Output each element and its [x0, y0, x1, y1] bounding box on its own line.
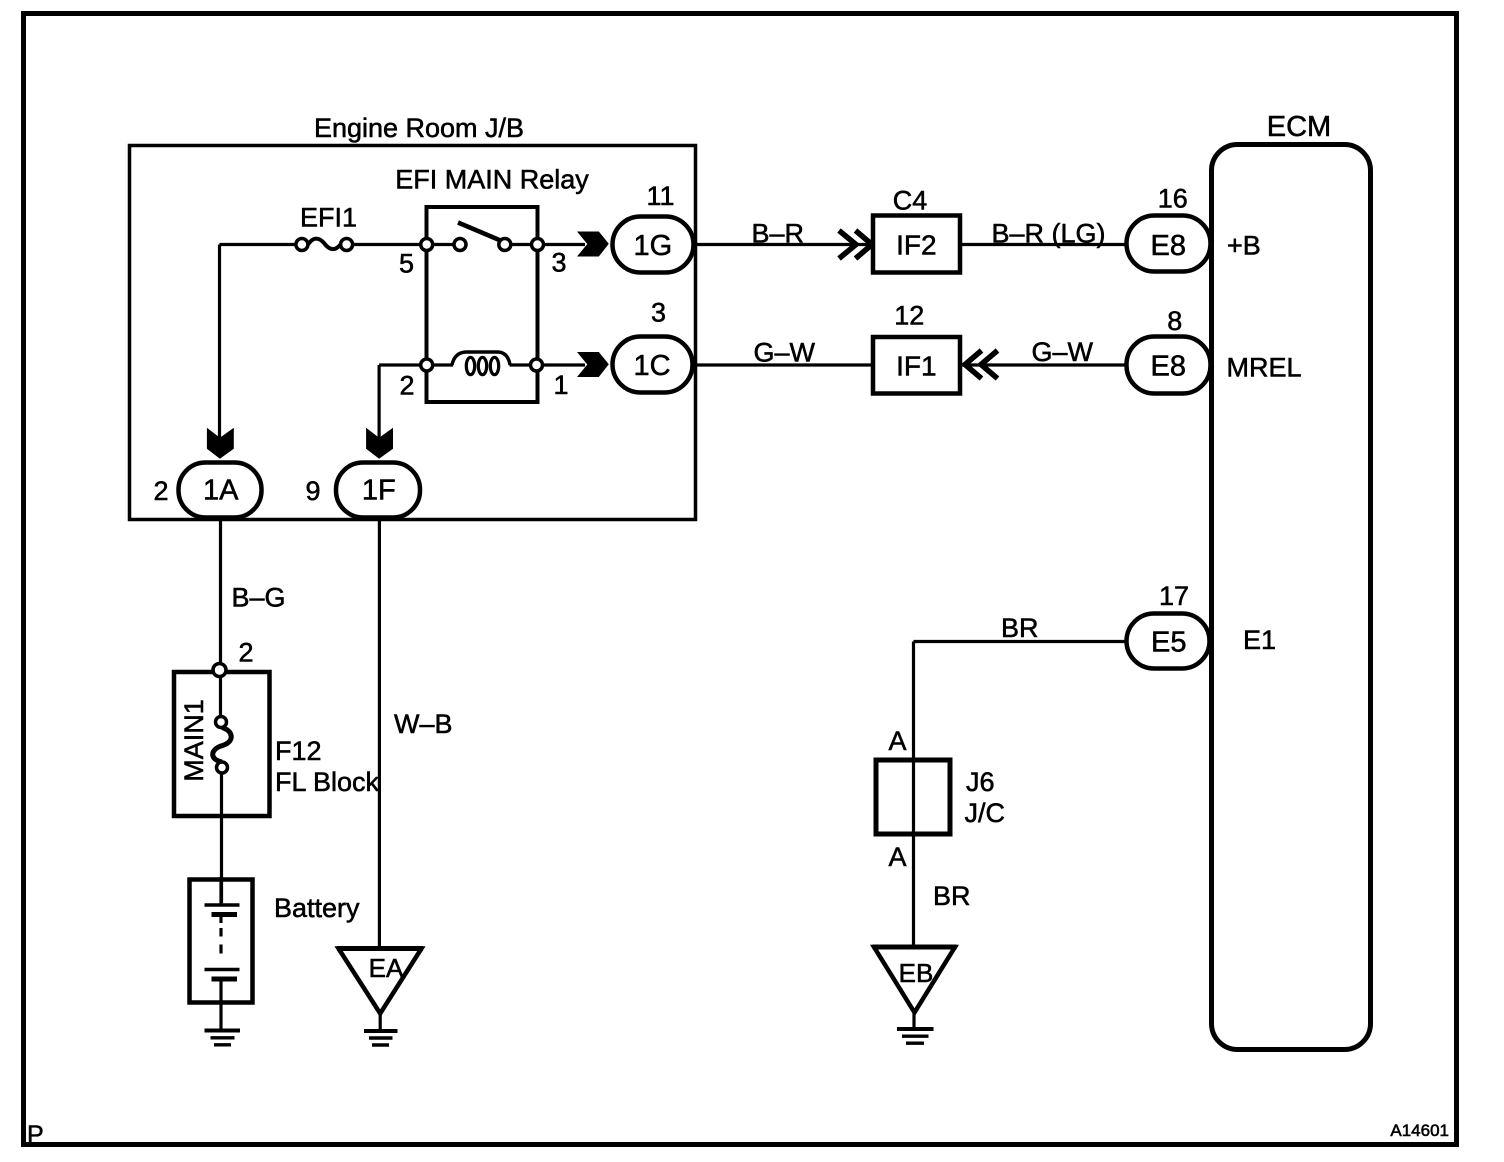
svg-text:IF1: IF1 — [896, 351, 936, 382]
svg-text:EFI1: EFI1 — [300, 203, 357, 233]
svg-text:W–B: W–B — [394, 709, 453, 739]
svg-text:17: 17 — [1159, 581, 1189, 611]
svg-text:2: 2 — [154, 476, 169, 506]
svg-text:EFI MAIN Relay: EFI MAIN Relay — [395, 165, 589, 195]
svg-text:FL Block: FL Block — [275, 767, 380, 797]
svg-text:E1: E1 — [1243, 625, 1276, 655]
svg-text:E5: E5 — [1151, 626, 1186, 658]
svg-text:A14601: A14601 — [1390, 1121, 1449, 1140]
svg-text:J/C: J/C — [965, 798, 1006, 828]
svg-text:EA: EA — [369, 953, 404, 983]
svg-text:G–W: G–W — [1032, 337, 1094, 367]
svg-text:16: 16 — [1158, 184, 1188, 214]
svg-text:F12: F12 — [275, 736, 322, 766]
svg-text:B–G: B–G — [232, 583, 286, 613]
svg-text:BR: BR — [1001, 613, 1039, 643]
svg-text:Engine Room J/B: Engine Room J/B — [314, 113, 524, 143]
svg-text:B–R: B–R — [752, 219, 805, 249]
svg-text:B–R (LG): B–R (LG) — [992, 219, 1106, 249]
svg-text:2: 2 — [239, 638, 254, 668]
svg-text:C4: C4 — [893, 186, 928, 216]
svg-text:EB: EB — [899, 958, 934, 988]
svg-text:G–W: G–W — [754, 338, 816, 368]
svg-text:11: 11 — [646, 181, 674, 211]
svg-text:5: 5 — [399, 249, 414, 279]
svg-text:1F: 1F — [362, 475, 396, 507]
svg-text:A: A — [889, 842, 907, 872]
svg-text:E8: E8 — [1151, 350, 1186, 382]
svg-text:3: 3 — [552, 248, 567, 278]
svg-text:2: 2 — [400, 371, 415, 401]
svg-text:MREL: MREL — [1227, 353, 1302, 383]
svg-text:MAIN1: MAIN1 — [179, 699, 209, 782]
svg-text:IF2: IF2 — [896, 230, 936, 261]
svg-text:8: 8 — [1167, 306, 1182, 336]
svg-text:9: 9 — [306, 476, 321, 506]
svg-text:J6: J6 — [966, 767, 995, 797]
svg-text:P: P — [27, 1121, 44, 1149]
svg-text:12: 12 — [894, 301, 924, 331]
svg-text:1C: 1C — [633, 350, 670, 382]
svg-text:1: 1 — [554, 370, 569, 400]
svg-text:E8: E8 — [1151, 230, 1186, 262]
svg-text:+B: +B — [1227, 231, 1261, 261]
svg-text:3: 3 — [651, 298, 666, 328]
svg-text:A: A — [889, 726, 907, 756]
svg-text:Battery: Battery — [274, 893, 360, 923]
svg-text:ECM: ECM — [1267, 111, 1331, 143]
svg-text:1G: 1G — [633, 230, 672, 262]
svg-text:BR: BR — [933, 881, 971, 911]
svg-text:1A: 1A — [203, 475, 239, 507]
